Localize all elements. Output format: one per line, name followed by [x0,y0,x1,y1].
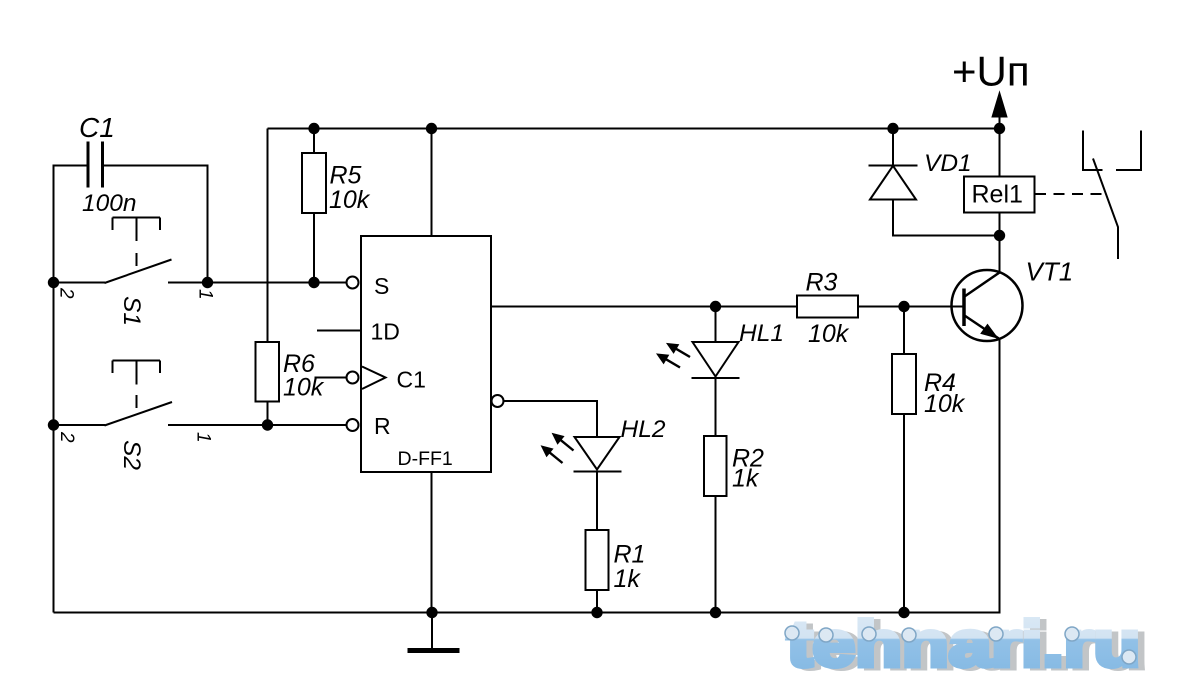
svg-text:10k: 10k [329,186,371,214]
svg-text:10k: 10k [808,320,850,348]
svg-text:S2: S2 [118,440,145,470]
svg-text:2: 2 [56,431,77,443]
svg-text:1k: 1k [732,465,760,493]
svg-text:R3: R3 [806,269,838,297]
svg-text:100n: 100n [82,190,137,217]
svg-text:1D: 1D [371,319,400,345]
svg-text:HL2: HL2 [621,416,666,443]
svg-text:VT1: VT1 [1026,257,1074,287]
svg-text:tehnari.ru: tehnari.ru [787,608,1140,680]
svg-text:HL1: HL1 [739,320,784,347]
svg-text:S1: S1 [118,296,145,326]
svg-text:1k: 1k [614,565,642,593]
svg-text:VD1: VD1 [924,150,972,177]
svg-text:+Uп: +Uп [952,48,1030,95]
svg-text:1: 1 [195,289,216,300]
svg-text:10k: 10k [283,374,325,402]
svg-text:C1: C1 [397,367,426,393]
svg-text:R: R [374,413,391,439]
svg-text:Rel1: Rel1 [972,181,1023,209]
svg-text:D-FF1: D-FF1 [398,448,453,470]
svg-text:C1: C1 [79,112,115,143]
svg-text:10k: 10k [924,390,966,418]
svg-text:1: 1 [193,432,214,443]
svg-text:2: 2 [56,287,77,299]
svg-text:S: S [374,273,389,299]
